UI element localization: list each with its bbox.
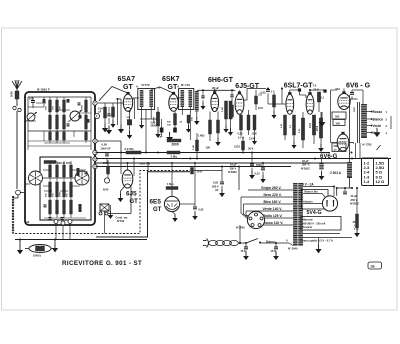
svg-text:AF: AF — [215, 188, 219, 192]
svg-text:6SK7: 6SK7 — [162, 76, 180, 83]
svg-text:Arancio: Arancio — [303, 199, 313, 203]
svg-text:Grigio 280 V.: Grigio 280 V. — [261, 186, 282, 190]
svg-text:32 µF: 32 µF — [302, 159, 309, 163]
plate resistor 0.5M — [255, 96, 258, 104]
tube 6E5 magic eye — [164, 196, 179, 211]
dashed shield boundary — [13, 171, 190, 234]
svg-text:Marrone: Marrone — [303, 218, 314, 222]
svg-text:Bianco: Bianco — [373, 117, 384, 121]
wire right of 6SA7 — [134, 99, 136, 119]
wires 6J5 second — [120, 153, 122, 175]
svg-text:6J5-GT: 6J5-GT — [235, 83, 259, 90]
grid cap wire 6SK7 — [151, 87, 172, 93]
svg-text:Nero 220 V.: Nero 220 V. — [264, 193, 282, 197]
tube 6SK7 — [169, 94, 178, 111]
svg-text:N°772: N°772 — [142, 83, 150, 87]
tube 6SA7 — [123, 94, 132, 111]
wire 6SK7 plate — [177, 97, 182, 99]
resistor 2000 horizontal — [167, 139, 181, 142]
svg-text:6H6-GT: 6H6-GT — [208, 77, 234, 84]
fuse 1045/1 — [29, 245, 51, 253]
cathode line y119 — [140, 118, 158, 120]
top wire y90 — [197, 89, 236, 91]
bus line AVC — [96, 158, 391, 160]
bus line screen B+ — [96, 152, 330, 154]
secondary tap Arancio — [303, 203, 323, 205]
svg-text:0,23: 0,23 — [255, 172, 261, 176]
inner oscillator box — [40, 157, 91, 220]
antenna terminals — [13, 106, 16, 109]
wire IFT1 to bus — [145, 110, 147, 153]
solid dial boundary — [96, 172, 190, 237]
mains tap Rosso 110V — [251, 224, 293, 226]
plate wires to output transformer — [350, 98, 357, 100]
resistor 2M — [167, 151, 180, 154]
svg-text:N° 2702: N° 2702 — [363, 144, 373, 147]
ground arrow under 0.04 — [108, 126, 110, 131]
ground bus — [15, 239, 147, 241]
svg-text:12 Ω: 12 Ω — [376, 179, 386, 184]
svg-text:N°763: N°763 — [117, 219, 125, 223]
bleeder resistor — [353, 188, 355, 218]
power switch — [246, 239, 258, 244]
resistor box 300 — [333, 120, 345, 126]
svg-text:N°1045: N°1045 — [236, 226, 245, 230]
component column near box — [104, 107, 107, 118]
logo ds — [368, 262, 382, 269]
svg-text:1-4: 1-4 — [364, 179, 371, 184]
6E5 target wire and cap — [180, 203, 195, 205]
RF coil L1 — [27, 113, 35, 121]
svg-text:Bleu 160 V.: Bleu 160 V. — [264, 200, 282, 204]
speaker ground arrow — [376, 128, 378, 133]
pointer line to table — [377, 145, 381, 150]
svg-text:0,1M: 0,1M — [222, 107, 224, 112]
svg-text:Bianco blu: Bianco blu — [305, 189, 319, 193]
line filter cap left — [245, 243, 247, 247]
svg-text:1¼ W: 1¼ W — [334, 148, 341, 152]
svg-text:2 303 A: 2 303 A — [330, 171, 342, 175]
coil unit box N.1861-F — [25, 92, 95, 225]
line filter cap right — [275, 243, 277, 247]
svg-text:Bianco giallo 6,3 V - 0,7 A: Bianco giallo 6,3 V - 0,7 A — [301, 239, 334, 243]
svg-text:0,2 Mη: 0,2 Mη — [125, 147, 134, 151]
svg-text:2000: 2000 — [10, 91, 14, 97]
svg-text:300Ω: 300Ω — [151, 125, 157, 128]
svg-text:25 K: 25 K — [314, 89, 319, 92]
RF trimmers and windings — [49, 100, 52, 112]
ground arrow left — [19, 240, 21, 247]
tube 6V6 lower — [337, 134, 349, 151]
antenna coil to ground — [12, 196, 14, 233]
svg-text:6V6 - G: 6V6 - G — [346, 83, 371, 90]
grid cap wire 6SA7 — [99, 87, 127, 101]
big ground arrow mid right — [321, 112, 323, 117]
mains tap Verde 140V — [246, 210, 293, 212]
impedance table — [362, 158, 389, 186]
svg-text:50Ω: 50Ω — [334, 144, 339, 148]
svg-text:2000: 2000 — [60, 191, 62, 197]
svg-text:N°1861 F: N°1861 F — [37, 88, 50, 92]
choke Z 303 A — [347, 162, 352, 178]
power transformer windings — [293, 183, 298, 246]
secondary tap Bianco blu — [303, 193, 322, 195]
oscillator switch S1 — [29, 171, 43, 185]
svg-text:N°3952: N°3952 — [228, 170, 237, 174]
cord junctions — [239, 242, 241, 244]
tube 6H6 — [211, 94, 219, 112]
svg-text:0,09: 0,09 — [25, 221, 30, 224]
tube 6SL7 triode B — [306, 94, 314, 114]
RF small caps — [78, 102, 81, 104]
tube 6J5 second — [122, 170, 133, 188]
detector caps — [230, 94, 233, 96]
mains tap Giallo 125V — [249, 217, 294, 219]
svg-text:420 Ω 15%: 420 Ω 15% — [57, 161, 72, 165]
diode load 100 — [217, 120, 220, 133]
tube 6SL7 triode A — [286, 94, 294, 114]
svg-text:500 V: 500 V — [212, 184, 219, 188]
svg-text:10 K: 10 K — [197, 170, 203, 174]
secondary tap 5V — [303, 186, 334, 188]
filament box — [302, 190, 329, 210]
svg-text:350 V: 350 V — [351, 198, 358, 202]
svg-text:2 Mη: 2 Mη — [171, 154, 178, 158]
svg-text:100: 100 — [206, 146, 211, 150]
output transformer N.2702 — [357, 102, 359, 143]
HT winding labels box — [301, 217, 341, 231]
grid resistors below — [240, 115, 243, 130]
svg-text:Verde 140 V.: Verde 140 V. — [263, 207, 283, 211]
svg-text:1 Mω: 1 Mω — [167, 182, 174, 186]
box bottom terminals — [54, 220, 58, 224]
wire 6SA7 plate — [133, 97, 139, 99]
resistor 420 ohm — [44, 161, 56, 164]
wire IFT1 left arrow — [141, 119, 143, 122]
svg-text:ds: ds — [371, 264, 375, 268]
mains tap Nero 220V — [241, 196, 293, 198]
ground arrow right of fuse — [54, 240, 56, 245]
tuning condenser trimmer — [100, 204, 109, 211]
mains tap Bleu 160V — [244, 203, 294, 205]
cathode resistor box 50ohm — [332, 143, 346, 152]
terminal leads to ground bus — [55, 224, 57, 240]
OT top feed — [352, 89, 363, 91]
svg-text:6E5: 6E5 — [150, 199, 162, 206]
oscillator trimmers and windings — [49, 165, 52, 177]
svg-text:GT: GT — [123, 84, 133, 91]
wire to tuning condenser — [130, 187, 132, 214]
mains tap Grigio 280V — [248, 189, 293, 191]
resistor 10K on dashed line — [191, 168, 194, 175]
svg-text:0,02: 0,02 — [199, 209, 204, 212]
svg-text:0,25: 0,25 — [238, 132, 244, 136]
svg-text:0,05: 0,05 — [213, 181, 219, 185]
tube 6V6 upper — [338, 94, 350, 110]
svg-text:300: 300 — [336, 122, 341, 126]
svg-text:Rosso: Rosso — [373, 110, 383, 114]
cap left of 6H6 — [201, 95, 204, 97]
RF section wiring — [28, 96, 91, 98]
speaker taps — [367, 111, 372, 113]
cap 0.05 500V AF — [221, 167, 223, 182]
6SL7 resistors — [284, 115, 287, 135]
svg-text:6V6-G: 6V6-G — [320, 154, 338, 160]
svg-text:5V4-G: 5V4-G — [307, 210, 322, 216]
resistor under IFT2 — [187, 115, 190, 123]
svg-text:GT: GT — [153, 207, 162, 213]
svg-text:32 µF: 32 µF — [351, 194, 358, 198]
svg-text:15 K: 15 K — [271, 250, 276, 253]
svg-text:15 K: 15 K — [241, 250, 246, 253]
resistors right of IFT2 — [196, 140, 199, 151]
osc wiring — [43, 177, 76, 179]
svg-text:5 V - 2A: 5 V - 2A — [302, 182, 314, 186]
svg-text:0,05: 0,05 — [261, 91, 267, 95]
extra box density RF — [43, 99, 46, 103]
wires box mid — [27, 131, 29, 150]
svg-text:Arancio: Arancio — [303, 225, 313, 229]
voltage selector wiring — [238, 167, 240, 191]
resistor 500 — [107, 166, 110, 174]
svg-text:N°.712: N°.712 — [181, 83, 190, 87]
ground arrow x121 — [120, 125, 122, 130]
svg-text:K: K — [137, 86, 139, 89]
svg-text:303: 303 — [335, 114, 340, 118]
svg-text:K: K — [178, 86, 180, 89]
svg-text:N°3912: N°3912 — [350, 202, 359, 206]
svg-text:N°45: N°45 — [103, 189, 109, 192]
detector secondary winding — [195, 91, 199, 111]
antenna lead wire — [16, 111, 18, 189]
cap 005 under 6SA7 — [127, 120, 132, 126]
svg-text:0,1: 0,1 — [321, 97, 325, 100]
svg-text:5000: 5000 — [256, 163, 262, 167]
svg-text:7 K: 7 K — [313, 85, 317, 88]
arrow near cond var — [110, 205, 112, 212]
svg-text:6SA7: 6SA7 — [118, 76, 136, 83]
extra arrows mid band — [157, 131, 159, 132]
svg-text:2000: 2000 — [82, 104, 84, 110]
svg-text:1202: 1202 — [317, 125, 319, 131]
grid feed line 6V6 lower — [330, 90, 332, 143]
svg-text:100 µF: 100 µF — [212, 87, 220, 90]
svg-text:N°3912: N°3912 — [301, 166, 310, 170]
svg-text:150V AF: 150V AF — [101, 146, 112, 150]
svg-text:2000: 2000 — [310, 122, 312, 128]
svg-text:260-280 V - 100 mA: 260-280 V - 100 mA — [302, 221, 326, 225]
B+ from rectifier — [333, 187, 335, 197]
svg-text:30Ω: 30Ω — [192, 117, 194, 121]
svg-text:13 K: 13 K — [249, 138, 254, 141]
svg-text:350 V: 350 V — [230, 166, 237, 170]
phono jack — [104, 178, 109, 183]
RF coil L2 — [70, 111, 80, 121]
oscillator switch S2 — [75, 171, 89, 185]
IF transformer N.772 — [138, 89, 155, 110]
output transformer leads down — [355, 143, 357, 158]
bus line heater B — [96, 166, 291, 168]
heater winding 6.3V — [303, 233, 340, 235]
svg-text:0,1M: 0,1M — [193, 145, 195, 150]
svg-text:0,05: 0,05 — [102, 143, 108, 147]
tube 6J5 — [235, 94, 244, 115]
resistors right of 6H6 — [225, 101, 228, 119]
wire antenna to box — [20, 192, 25, 194]
twisted mains cord — [209, 240, 218, 245]
svg-text:RICEVITORE G. 901 - ST: RICEVITORE G. 901 - ST — [62, 260, 142, 267]
svg-text:Verde: Verde — [373, 124, 382, 128]
B+ line down — [349, 95, 351, 162]
speaker line — [390, 116, 392, 129]
resistor box 303 — [332, 112, 346, 119]
svg-text:16 µF: 16 µF — [230, 163, 237, 167]
mains plug — [203, 240, 207, 242]
ground terminal — [16, 190, 21, 195]
svg-text:Giallo 125 V.: Giallo 125 V. — [263, 214, 283, 218]
6E5 cathode ground — [172, 212, 175, 214]
big ground arrow mid — [169, 132, 171, 135]
IF transformer N.712 — [179, 89, 194, 110]
ground arrow under 6J5 second — [121, 187, 125, 195]
rectifier 5V4-G — [322, 196, 337, 211]
svg-text:20 P.: 20 P. — [258, 107, 264, 110]
svg-text:12G3: 12G3 — [234, 146, 241, 149]
antenna — [12, 80, 17, 89]
svg-text:Cond. var: Cond. var — [116, 216, 128, 220]
bus line heater A — [96, 162, 352, 164]
extra box density osc — [77, 168, 80, 176]
svg-text:3000: 3000 — [354, 106, 356, 112]
svg-text:Rosso 110 V.: Rosso 110 V. — [263, 221, 284, 225]
svg-text:1 MΩ: 1 MΩ — [198, 134, 204, 138]
resistor 20000 — [156, 112, 159, 126]
junction dots — [120, 151, 122, 153]
wire box terminal 3 — [98, 140, 122, 142]
svg-text:N° 3040: N° 3040 — [288, 247, 298, 251]
svg-text:2000: 2000 — [172, 142, 179, 146]
svg-text:GT: GT — [168, 84, 178, 91]
svg-text:500: 500 — [103, 162, 108, 165]
svg-text:B: B — [159, 87, 161, 90]
svg-text:504: 504 — [336, 88, 341, 91]
box side terminals — [93, 101, 97, 105]
svg-text:30 K: 30 K — [248, 147, 254, 151]
resistor 12K 13K — [253, 115, 256, 130]
svg-text:350 °C: 350 °C — [302, 163, 310, 167]
svg-text:1045/1: 1045/1 — [33, 254, 41, 258]
wires left of 6SA7 — [116, 99, 118, 125]
6SL7 wiring top — [282, 103, 286, 105]
svg-text:6J5: 6J5 — [126, 191, 137, 198]
voltage selector plug N.1045 — [247, 211, 264, 228]
